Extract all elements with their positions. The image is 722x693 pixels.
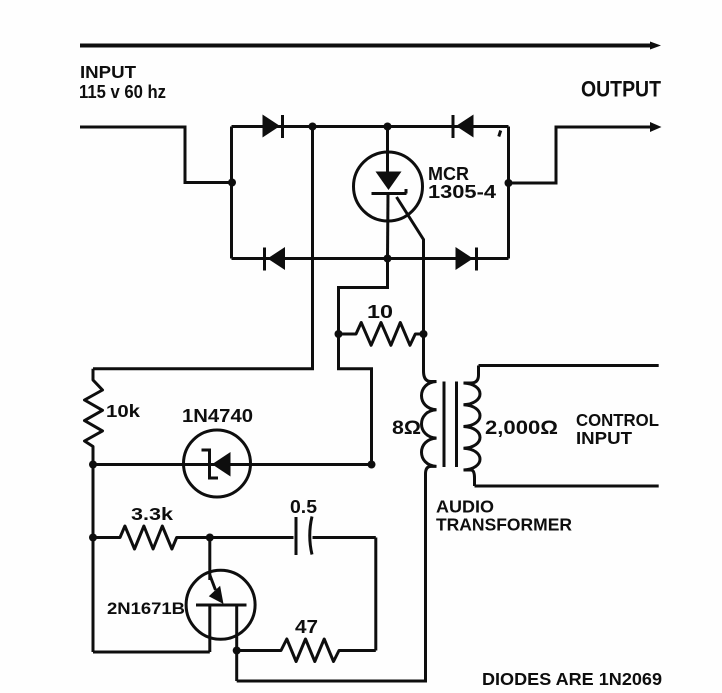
svg-text:3.3k: 3.3k (131, 504, 173, 524)
svg-text:10: 10 (367, 302, 393, 322)
svg-text:CONTROL: CONTROL (576, 410, 659, 430)
svg-text:INPUT: INPUT (80, 62, 136, 82)
svg-text:10k: 10k (106, 401, 140, 421)
svg-text:AUDIO: AUDIO (436, 497, 494, 517)
svg-text:2,000Ω: 2,000Ω (485, 417, 558, 439)
svg-text:47: 47 (295, 617, 318, 637)
svg-text:8Ω: 8Ω (392, 417, 421, 439)
svg-text:TRANSFORMER: TRANSFORMER (436, 515, 572, 535)
svg-text:2N1671B: 2N1671B (107, 599, 185, 618)
svg-text:DIODES ARE 1N2069: DIODES ARE 1N2069 (482, 669, 662, 689)
svg-text:0.5: 0.5 (290, 497, 317, 517)
svg-text:1305-4: 1305-4 (428, 182, 496, 202)
svg-text:115 v 60 hz: 115 v 60 hz (79, 82, 166, 102)
svg-text:OUTPUT: OUTPUT (581, 77, 661, 102)
svg-text:MCR: MCR (428, 164, 469, 184)
svg-text:INPUT: INPUT (576, 428, 632, 448)
svg-text:1N4740: 1N4740 (182, 406, 253, 426)
